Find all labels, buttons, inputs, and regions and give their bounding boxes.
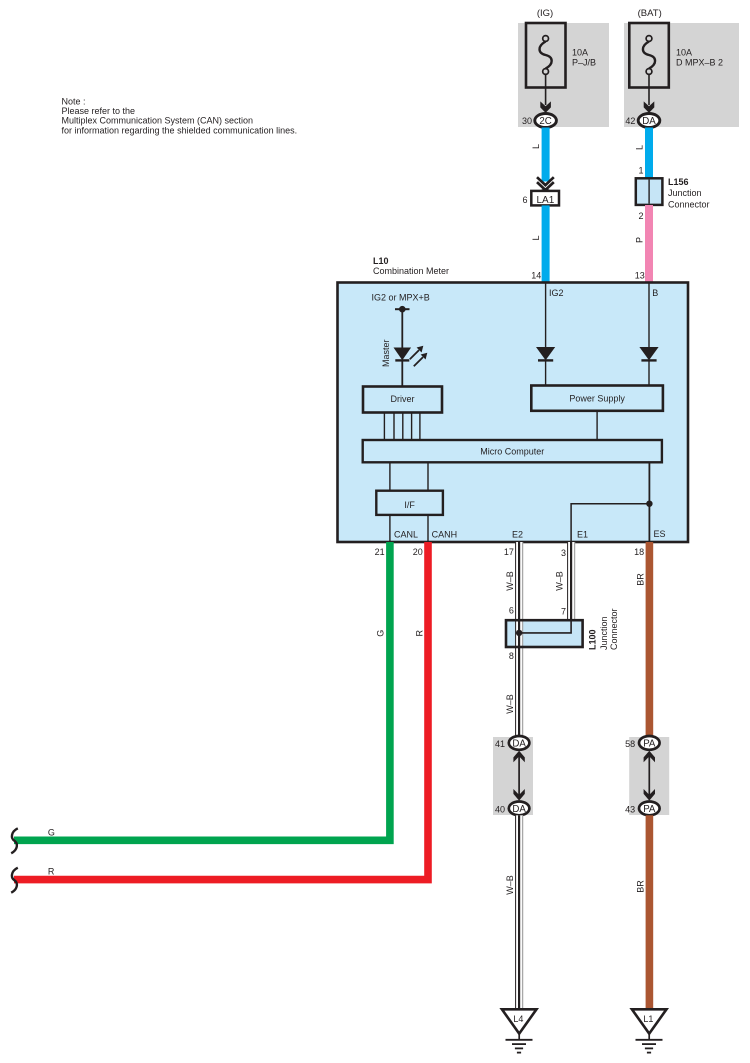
wires Micro Computer to I/F (389, 462, 391, 490)
shield chevrons (537, 177, 554, 185)
wire L (blue) LA1 to meter pin 14 (542, 205, 550, 282)
svg-text:42: 42 (625, 116, 635, 126)
svg-text:for information regarding the: for information regarding the shielded c… (62, 125, 298, 135)
svg-text:3: 3 (561, 548, 566, 558)
svg-text:20: 20 (413, 547, 423, 557)
svg-text:L4: L4 (513, 1014, 523, 1024)
power source block (BAT) background (624, 23, 739, 127)
wire pin13 to diode2 (648, 283, 650, 348)
wire W-B DA40 to ground L4 (515, 815, 523, 1009)
svg-text:Micro Computer: Micro Computer (480, 446, 544, 456)
wire G (green) CANL (14, 542, 390, 840)
svg-text:DA: DA (642, 116, 656, 127)
svg-text:L156: L156 (668, 177, 689, 187)
connector block DA background (493, 737, 533, 815)
svg-text:Master: Master (381, 339, 391, 367)
svg-text:Power Supply: Power Supply (569, 393, 625, 403)
svg-text:PA: PA (643, 804, 656, 815)
svg-text:W–B: W–B (555, 571, 565, 591)
connector LA1 pin 6 (522, 191, 559, 206)
arrow link DA41-DA40 (513, 751, 524, 801)
wire Power Supply to Micro Computer (596, 411, 598, 440)
svg-text:R: R (48, 867, 55, 877)
svg-text:L: L (531, 235, 541, 240)
junction connector L100 body (506, 620, 583, 647)
wire L (blue) 2C to LA1 (542, 128, 550, 182)
wires I/F to CANL CANH pins (389, 515, 391, 542)
ground L4 (502, 1009, 537, 1052)
junction dot ES/E1 (646, 501, 652, 507)
svg-text:IG2: IG2 (549, 288, 564, 298)
svg-text:Please refer to the: Please refer to the (62, 106, 136, 116)
wire Micro Computer to ES (648, 462, 650, 542)
svg-text:B: B (652, 288, 658, 298)
I/F box (376, 491, 443, 515)
svg-text:18: 18 (634, 547, 644, 557)
svg-text:14: 14 (531, 270, 541, 280)
junction connector L100 (506, 608, 619, 650)
svg-text:30: 30 (522, 116, 532, 126)
wire BR PA43 to ground L1 (646, 815, 654, 1009)
svg-text:L: L (635, 145, 645, 150)
svg-text:8: 8 (509, 651, 514, 661)
svg-text:P: P (635, 237, 645, 243)
combination meter L10 box (338, 283, 689, 543)
connector PA pin 58 (625, 736, 659, 750)
svg-text:ES: ES (654, 529, 666, 539)
wire diode2 to Power Supply (648, 360, 650, 385)
svg-text:LA1: LA1 (537, 195, 555, 206)
Micro Computer box (363, 440, 662, 462)
terminal labels (394, 529, 666, 540)
svg-text:L100: L100 (588, 629, 598, 650)
svg-text:W–B: W–B (505, 875, 515, 895)
svg-text:10A: 10A (572, 48, 588, 58)
wire E1 internal (571, 504, 649, 542)
wire fuse2 to connector DA (648, 74, 650, 105)
continuation squiggle green (11, 828, 18, 853)
fuse 10A D MPX-B 2 (629, 23, 723, 88)
svg-text:Connector: Connector (668, 199, 710, 209)
wire pin14 to diode1 (545, 283, 547, 348)
svg-text:2: 2 (638, 211, 643, 221)
connector DA pin 41 (495, 736, 529, 750)
ground L1 (632, 1009, 667, 1052)
svg-text:40: 40 (495, 805, 505, 815)
svg-text:17: 17 (504, 547, 514, 557)
diode D2 (639, 347, 658, 360)
svg-text:7: 7 (561, 606, 566, 616)
Driver box (363, 387, 442, 413)
LED Master (381, 339, 427, 367)
svg-text:G: G (376, 630, 386, 637)
pin numbers below meter (375, 547, 645, 558)
svg-text:41: 41 (495, 739, 505, 749)
svg-text:L1: L1 (643, 1014, 653, 1024)
svg-text:58: 58 (625, 739, 635, 749)
svg-text:L: L (531, 144, 541, 149)
svg-text:Junction: Junction (668, 188, 702, 198)
svg-text:G: G (48, 827, 55, 837)
svg-text:D MPX–B 2: D MPX–B 2 (676, 58, 723, 68)
svg-text:Combination Meter: Combination Meter (373, 266, 449, 276)
note text (62, 97, 298, 136)
wire P (pink) L156 to meter pin 13 (645, 205, 653, 283)
svg-text:IG2 or MPX+B: IG2 or MPX+B (372, 292, 430, 302)
svg-text:6: 6 (509, 606, 514, 616)
connector DA pin 42 (625, 114, 659, 128)
svg-text:CANL: CANL (394, 530, 418, 540)
wire node to LED (401, 309, 403, 347)
fuse 10A P-J/B (526, 23, 596, 88)
svg-text:BR: BR (635, 573, 645, 586)
svg-text:10A: 10A (676, 48, 692, 58)
wires Driver to Micro Computer (384, 413, 420, 441)
svg-text:Driver: Driver (391, 394, 415, 404)
junction connector L156 (636, 177, 710, 209)
connector DA pin 40 (495, 802, 529, 816)
svg-text:E2: E2 (512, 530, 523, 540)
svg-text:(IG): (IG) (537, 8, 553, 19)
wire L (blue) DA to L156 pin 1 (645, 128, 653, 179)
svg-text:R: R (414, 629, 424, 636)
svg-text:21: 21 (375, 547, 385, 557)
continuation squiggle red (11, 868, 18, 893)
svg-text:DA: DA (512, 804, 526, 815)
svg-text:43: 43 (625, 805, 635, 815)
wire W-B E1 pin3 to L100 (567, 542, 575, 620)
svg-text:DA: DA (512, 739, 526, 750)
svg-text:(BAT): (BAT) (638, 8, 662, 19)
svg-text:Multiplex Communication System: Multiplex Communication System (CAN) sec… (62, 116, 254, 126)
svg-text:Junction: Junction (599, 616, 609, 650)
svg-text:PA: PA (643, 739, 656, 750)
wire diode1 to Power Supply (545, 360, 547, 385)
svg-text:L10: L10 (373, 256, 389, 266)
Power Supply box (531, 386, 663, 411)
connector PA pin 43 (625, 802, 659, 816)
arrow into 2C (540, 101, 551, 113)
svg-text:P–J/B: P–J/B (572, 58, 596, 68)
svg-text:2C: 2C (539, 116, 551, 127)
wire LED to Driver (401, 360, 403, 386)
wire W-B E2 pin17 to DA (515, 542, 523, 736)
svg-text:W–B: W–B (505, 694, 515, 714)
svg-text:13: 13 (635, 270, 645, 280)
svg-text:CANH: CANH (432, 530, 458, 540)
svg-text:Connector: Connector (609, 608, 619, 650)
connector block PA background (629, 737, 669, 815)
power source block (IG) background (518, 23, 609, 127)
svg-text:6: 6 (522, 195, 527, 205)
wire BR ES pin18 to PA (646, 542, 654, 736)
connector 2C pin 30 (522, 114, 556, 128)
svg-text:1: 1 (638, 166, 643, 176)
node IG2 or MPX+B (372, 292, 430, 312)
wire fuse1 to connector 2C (545, 74, 547, 105)
arrow into DA (644, 101, 655, 113)
svg-text:Note :: Note : (62, 97, 86, 107)
svg-text:I/F: I/F (404, 500, 415, 510)
arrow link PA58-PA43 (644, 751, 655, 801)
svg-text:BR: BR (635, 880, 645, 893)
svg-text:E1: E1 (577, 530, 588, 540)
svg-text:W–B: W–B (505, 571, 515, 591)
wire R (red) CANH (14, 542, 428, 880)
diode D1 (536, 347, 555, 360)
